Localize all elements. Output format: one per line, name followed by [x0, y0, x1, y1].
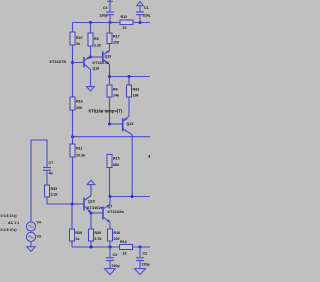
svg-text:0 0.5 2Гк): 0 0.5 2Гк) [1, 228, 18, 232]
wire top bus right [133, 22, 150, 24]
wire top bus left [73, 22, 121, 24]
resistor R17 [107, 23, 120, 51]
transistor Q16 [73, 57, 91, 70]
svg-text:R20: R20 [95, 231, 102, 235]
node junction R3/top bus [89, 21, 92, 24]
svg-text:2.7k: 2.7k [95, 237, 102, 241]
svg-text:C7: C7 [49, 161, 54, 165]
svg-text:Q19: Q19 [105, 55, 112, 59]
resistor R13 [120, 240, 133, 256]
svg-text:2k: 2k [76, 42, 80, 46]
node input R35 [71, 203, 74, 206]
wire bottom bus left [72, 246, 120, 248]
svg-text:22: 22 [123, 26, 127, 30]
transistor Q7 [103, 197, 110, 230]
svg-text:R6: R6 [113, 88, 118, 92]
svg-text:R3: R3 [94, 37, 99, 41]
tiny edge label [148, 155, 151, 158]
svg-text:C1: C1 [144, 6, 149, 10]
wire Q16 collector down [90, 69, 92, 86]
svg-text:V3: V3 [37, 235, 41, 239]
svg-text:220µ: 220µ [112, 264, 120, 268]
svg-text:R27: R27 [76, 36, 83, 40]
svg-text:R35: R35 [51, 187, 58, 191]
svg-text:22: 22 [123, 252, 127, 256]
capacitor C1 [136, 1, 151, 22]
resistor R29 [70, 204, 83, 247]
svg-text:Q7: Q7 [108, 205, 113, 209]
resistor R16b [108, 229, 121, 247]
node mid bus R33 [128, 75, 131, 78]
capacitor C3 [106, 247, 120, 268]
capacitor C7 [43, 161, 53, 185]
wire Q10 emitter down [90, 213, 92, 229]
wire out bus [110, 196, 151, 198]
label Q7 [108, 205, 113, 209]
svg-text:0 0.5 1Гк): 0 0.5 1Гк) [1, 214, 18, 218]
svg-text:1k: 1k [76, 237, 80, 241]
wire mid bus [110, 76, 151, 78]
label KT3107B mid [93, 61, 110, 65]
resistor R12 [120, 15, 133, 30]
svg-text:Q16: Q16 [93, 67, 100, 71]
svg-text:R12: R12 [121, 15, 128, 19]
node mid bus R6 [108, 75, 111, 78]
label source params 2 [8, 221, 19, 225]
label source params 3 [1, 228, 18, 232]
svg-text:R15: R15 [113, 156, 120, 160]
node R6/Q13 base [108, 123, 111, 126]
svg-text:R11: R11 [76, 147, 82, 151]
node out bus R15 [109, 195, 112, 198]
node junction C4/R17 top bus [109, 21, 112, 24]
ground V3 [27, 242, 35, 252]
node junction C1/top bus [139, 21, 142, 24]
transistor Q13 [110, 117, 133, 135]
node out bus Q13 [131, 195, 134, 198]
transistor Q10 [72, 196, 91, 213]
label Q16 [93, 67, 100, 71]
resistor R27 [70, 23, 83, 47]
svg-text:R16: R16 [114, 231, 121, 235]
arrow terminal up [87, 180, 95, 195]
svg-text:3.2k: 3.2k [51, 193, 58, 197]
node bottom bus C3 [109, 246, 112, 249]
wire input top [31, 140, 47, 222]
svg-text:680: 680 [113, 163, 119, 167]
svg-text:R16: R16 [76, 100, 83, 104]
svg-text:2.2k: 2.2k [94, 44, 101, 48]
wire left rail upper [72, 45, 74, 97]
source V4 [26, 221, 41, 232]
label source params 1 [1, 214, 18, 218]
resistor R20 [89, 229, 102, 247]
capacitor C2 [136, 247, 150, 268]
svg-text:Q13: Q13 [127, 122, 134, 126]
svg-text:КТ3102в: КТ3102в [87, 206, 104, 210]
wire bottom bus right [133, 246, 151, 248]
ground C2 [135, 269, 146, 275]
svg-text:R13: R13 [120, 240, 127, 244]
svg-text:V4: V4 [37, 221, 41, 225]
label Q10 [88, 200, 95, 204]
ground C3 [105, 269, 116, 275]
resistor R33 [127, 77, 140, 117]
svg-text:C2: C2 [143, 252, 148, 256]
svg-text:КТ3107Б: КТ3107Б [50, 60, 67, 64]
resistor R16 20k [70, 97, 83, 144]
wire Q13 collector down [131, 135, 133, 197]
wire Q10 emitter to Q7 base [91, 212, 103, 214]
svg-text:220µ: 220µ [143, 14, 150, 18]
svg-text:КТ3102в: КТ3102в [108, 210, 125, 214]
svg-text:220µ: 220µ [99, 14, 107, 18]
label KT3102v Q10 [87, 206, 104, 210]
label KT3107B left [50, 60, 67, 64]
node left rail feedback [71, 135, 74, 138]
svg-text:Q10: Q10 [88, 200, 95, 204]
resistor R11 [70, 144, 85, 204]
label Q19 [105, 55, 112, 59]
label KT816 temp [89, 109, 123, 114]
svg-text:КТ816в temp=(T): КТ816в temp=(T) [89, 109, 123, 114]
source V3 [26, 232, 41, 241]
svg-text:R29: R29 [76, 231, 83, 235]
arrow terminal down [87, 87, 95, 91]
svg-text:196: 196 [133, 94, 139, 98]
label Q13 [127, 122, 134, 126]
resistor R6 [107, 77, 119, 125]
resistor R15 [107, 155, 120, 197]
svg-text:C4: C4 [103, 6, 108, 10]
svg-text:R17: R17 [113, 35, 120, 39]
svg-text:100: 100 [114, 237, 120, 241]
resistor R3 [88, 23, 101, 58]
node Q10 emitter [90, 212, 93, 215]
svg-text:AC 1 1: AC 1 1 [8, 221, 19, 225]
resistor R35 [45, 185, 73, 204]
svg-text:R33: R33 [133, 88, 140, 92]
svg-text:20k: 20k [76, 106, 82, 110]
transistor Q19 [91, 50, 110, 76]
svg-text:220µ: 220µ [142, 263, 150, 267]
svg-text:C3: C3 [113, 253, 118, 257]
node bottom bus C2 [139, 246, 142, 249]
svg-text:4µ: 4µ [49, 171, 53, 175]
label KT3102v Q7 [108, 210, 125, 214]
capacitor C4 [99, 0, 114, 23]
svg-text:146: 146 [113, 94, 119, 98]
svg-text:100: 100 [113, 41, 119, 45]
node base tap Q16 [71, 61, 74, 64]
node R3/Q16/Q19 [89, 56, 92, 59]
svg-text:10.3k: 10.3k [76, 154, 85, 158]
svg-text:КТ3107Б: КТ3107Б [93, 61, 110, 65]
wire feedback horizontal [73, 136, 151, 138]
node bottom bus R20 [90, 246, 93, 249]
